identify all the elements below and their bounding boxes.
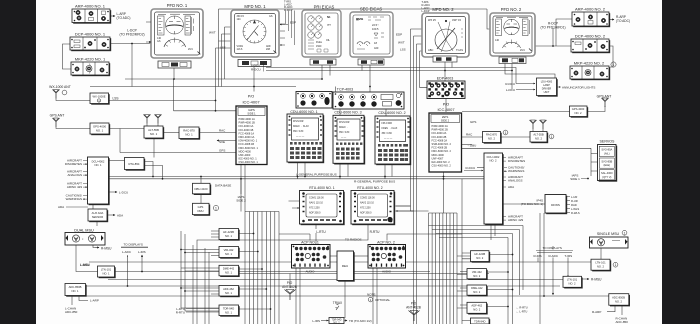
wire: DFWS to DCU2 link bbox=[503, 203, 546, 205]
wire: MFD2 tray down bbox=[445, 62, 452, 81]
svg-text:NO. 2: NO. 2 bbox=[597, 265, 605, 269]
svg-text:PFD NO. 2: PFD NO. 2 bbox=[501, 7, 522, 12]
PFD1 tray bbox=[158, 61, 191, 68]
svg-text:420: 420 bbox=[374, 46, 379, 50]
antenna WX-1000 ANT bbox=[49, 85, 90, 100]
svg-text:— — —: — — — bbox=[296, 137, 305, 139]
svg-text:AUX ADA: AUX ADA bbox=[92, 211, 104, 215]
label L-DCU output bbox=[119, 191, 128, 195]
svg-text:DCP-4000 NO. 2: DCP-4000 NO. 2 bbox=[575, 34, 606, 39]
wire: vertical x487 to PFD2 area bbox=[487, 9, 490, 29]
svg-text:P/O: P/O bbox=[443, 103, 450, 107]
svg-text:GS: GS bbox=[157, 40, 161, 43]
svg-text:ATC 1200: ATC 1200 bbox=[360, 207, 371, 210]
wire: ANT-462B right stem bbox=[413, 300, 415, 308]
label DCU2 right AIRCRAFT ANALOGS bbox=[503, 175, 523, 183]
display MFD NO. 1 bbox=[231, 4, 295, 67]
svg-text:R-GENERAL PURPOSE BUS: R-GENERAL PURPOSE BUS bbox=[354, 180, 395, 184]
svg-text:ADF 208.0: ADF 208.0 bbox=[309, 212, 321, 215]
svg-text:IAPS: IAPS bbox=[442, 115, 449, 119]
svg-text:R-IRS: R-IRS bbox=[534, 254, 542, 258]
unit DBU-4100 bbox=[193, 183, 212, 195]
svg-text:PWR-4000 2A: PWR-4000 2A bbox=[432, 124, 449, 128]
label L-DCU/R-DCU bracket bbox=[251, 64, 264, 72]
label DFWS outputs bbox=[571, 195, 580, 215]
wire: RTA-85A outputs to buses bbox=[144, 162, 163, 179]
svg-text:UNIT: UNIT bbox=[544, 91, 550, 94]
label EDP into MFD2 bbox=[396, 33, 402, 37]
svg-text:L-WLS: L-WLS bbox=[571, 207, 579, 211]
svg-text:DFWS: DFWS bbox=[551, 203, 560, 207]
symbol TRIAX bbox=[333, 301, 343, 310]
wire: right fan elbows staircase bbox=[429, 226, 524, 238]
label R-CHAN ADC-850 bbox=[616, 316, 629, 324]
svg-text:LTN-101: LTN-101 bbox=[101, 268, 112, 272]
wire: R-ARP stub bbox=[607, 311, 615, 313]
svg-text:1520: 1520 bbox=[316, 45, 322, 48]
svg-text:TCP-4003: TCP-4003 bbox=[337, 88, 353, 92]
svg-text:IAPS: IAPS bbox=[248, 108, 255, 112]
wire: ADC2 bottom stubs bbox=[615, 305, 622, 315]
panel TCP-4003 (left section) bbox=[296, 92, 332, 109]
svg-text:R-MSU: R-MSU bbox=[101, 246, 112, 250]
wire: PFD2 to DCP2 bbox=[535, 45, 571, 47]
svg-text:WXT: WXT bbox=[398, 41, 405, 45]
wire: LTN1 up to displays bracket bbox=[128, 256, 143, 286]
label L-GENERAL PURPOSE BUS bbox=[296, 172, 337, 176]
svg-text:FCC-4008 1B: FCC-4008 1B bbox=[239, 142, 255, 146]
wire: DCU1 down to AUX ADA bbox=[93, 204, 97, 226]
svg-text:R-RTU: R-RTU bbox=[176, 310, 185, 314]
svg-text:SIDE 1: SIDE 1 bbox=[570, 177, 580, 181]
svg-text:TO DISPLAYS: TO DISPLAYS bbox=[543, 246, 562, 250]
radio column right: unit ADF-462 NO. 2 bbox=[467, 302, 488, 314]
antenna GPS ANT left bbox=[50, 114, 90, 129]
svg-text:RAC: RAC bbox=[466, 133, 473, 137]
svg-text:SVE: SVE bbox=[219, 140, 225, 144]
label block T-IRS/R-ADC list (top left of MFD2) bbox=[422, 0, 431, 13]
svg-text:NO. 1: NO. 1 bbox=[102, 272, 110, 276]
svg-text:← L-RTU: ← L-RTU bbox=[516, 310, 527, 314]
svg-text:TO RADIOS: TO RADIOS bbox=[345, 237, 361, 241]
svg-text:ADC-850B: ADC-850B bbox=[69, 285, 82, 289]
wire: bracket arrows up bbox=[128, 255, 143, 257]
wire: long horizontal y86.5 bbox=[90, 86, 296, 88]
svg-text:COM2 118.00: COM2 118.00 bbox=[360, 197, 375, 200]
svg-text:SINGLE MSU: SINGLE MSU bbox=[597, 232, 620, 236]
wire: L-DCU/R-DCU pair to right bbox=[266, 68, 516, 84]
svg-text:ARP-4000 NO. 2: ARP-4000 NO. 2 bbox=[575, 7, 606, 12]
svg-text:SIDE 2: SIDE 2 bbox=[236, 199, 246, 203]
wire: DCP1/MKP1 left loop bbox=[63, 44, 72, 69]
label TO DISPLAYS (left) bbox=[121, 243, 148, 248]
wire: PFD1 tray line to IAPS1 bbox=[174, 79, 237, 111]
svg-text:→DBU: →DBU bbox=[467, 144, 476, 148]
wire: GPS2 antenna drop bbox=[587, 106, 605, 112]
label SVE near IAPS1 bbox=[219, 140, 225, 144]
svg-text:ADA: ADA bbox=[508, 185, 514, 189]
wire: SVE output from IAPS1 bbox=[217, 140, 236, 142]
svg-text:HF-423B: HF-423B bbox=[223, 230, 234, 234]
svg-text:RTU-4000 NO. 2: RTU-4000 NO. 2 bbox=[357, 186, 382, 190]
unit RAC-870 NO. 2 bbox=[483, 130, 508, 144]
svg-text:DME-442: DME-442 bbox=[223, 267, 235, 271]
svg-text:SEC EICAS: SEC EICAS bbox=[360, 7, 383, 12]
svg-text:DBU-4100: DBU-4100 bbox=[194, 187, 208, 191]
wire: TCP panel drops to CDUs bbox=[340, 109, 386, 116]
svg-text:WARNINGS: WARNINGS bbox=[66, 197, 82, 201]
wire: right bottom verticals bbox=[508, 213, 544, 324]
svg-text:208: 208 bbox=[266, 48, 271, 51]
label ADA (DCU1 down) bbox=[58, 205, 88, 209]
svg-text:124: 124 bbox=[237, 18, 242, 21]
svg-text:OPTIONAL: OPTIONAL bbox=[375, 298, 391, 302]
unit CDU-6000 NO. 3 bbox=[333, 111, 365, 165]
svg-text:ADF-462: ADF-462 bbox=[223, 287, 234, 291]
svg-text:ANT-462B: ANT-462B bbox=[282, 285, 297, 289]
svg-text:ACP NO. 2: ACP NO. 2 bbox=[377, 241, 395, 245]
svg-text:PRI EICAS: PRI EICAS bbox=[314, 5, 335, 10]
label IAPS SIDE 1 tap right bbox=[570, 174, 589, 182]
svg-text:DATA BASE: DATA BASE bbox=[215, 184, 231, 188]
wire: DME1 inputs bbox=[181, 268, 219, 271]
wire: ARP2 left loop bbox=[556, 19, 572, 46]
svg-text:1: 1 bbox=[624, 231, 626, 235]
wire: ACP1 to REU bbox=[330, 255, 337, 257]
svg-text:NO. 2: NO. 2 bbox=[473, 274, 481, 278]
svg-text:GPS: GPS bbox=[470, 120, 476, 124]
label DCU1 input AIRCRAFT ARINC 429 bbox=[67, 182, 87, 190]
svg-text:RAC: RAC bbox=[219, 129, 226, 133]
svg-text:ACP NO. 1: ACP NO. 1 bbox=[301, 241, 319, 245]
wire: ALT1 to RAC1 bbox=[164, 132, 179, 134]
svg-text:MKP-4220 NO. 2: MKP-4220 NO. 2 bbox=[574, 61, 605, 66]
radio column left: unit TDR-94D NO. 1 bbox=[219, 305, 240, 317]
SEC EICAS tray bbox=[358, 59, 384, 65]
label R-GENERAL PURPOSE BUS bbox=[354, 180, 395, 184]
wire: DCU1 to RTA-85A bbox=[109, 160, 125, 162]
unit GPS-4000 NO. 2 bbox=[570, 106, 589, 118]
wire: L-DCU/R-DCU pair lower bbox=[266, 71, 512, 90]
svg-text:TR (TO AFD 1/2): TR (TO AFD 1/2) bbox=[349, 319, 372, 323]
svg-text:NO. 2: NO. 2 bbox=[535, 137, 543, 141]
label R-ARP near ADC2 bbox=[592, 310, 601, 314]
wire: HF1 inputs bbox=[211, 231, 219, 237]
display PFD NO. 1 bbox=[146, 3, 203, 68]
svg-text:R-RTU: R-RTU bbox=[370, 230, 381, 234]
panel EDP-4003 bbox=[427, 77, 465, 99]
label DCU1 input AIRCRAFT ANALOGS bbox=[67, 170, 87, 178]
label RAC near IAPS1 bbox=[219, 129, 226, 133]
wire: DCP2-MKP2 right loop bbox=[609, 46, 613, 67]
svg-text:330° 15: 330° 15 bbox=[452, 18, 462, 22]
display MFD NO. 2 bbox=[422, 7, 469, 62]
unit ADC-850B NO. 1 bbox=[65, 284, 87, 297]
unit XPDR small box bottom center bbox=[312, 318, 371, 324]
panel ARP-4000 NO. 2 bbox=[572, 7, 630, 28]
MFD1 tray bbox=[238, 60, 271, 67]
label IAPS SIDE 2 tap bbox=[236, 195, 246, 203]
svg-text:NO. 2: NO. 2 bbox=[473, 290, 481, 294]
wire: IAPS2 right GPS line bbox=[462, 111, 570, 113]
svg-text:PWR-4000 1B: PWR-4000 1B bbox=[239, 121, 256, 125]
svg-text:350 / 0.80: 350 / 0.80 bbox=[293, 131, 304, 133]
svg-text:ADC-850: ADC-850 bbox=[616, 320, 629, 324]
wire: R-DCP junction vertical bbox=[552, 28, 554, 46]
label GPS near IAPS1 bbox=[219, 148, 225, 152]
label R-DCU into DCU2 bbox=[464, 166, 483, 171]
wire: IAPS2 right DBU line bbox=[462, 144, 472, 146]
wire: L general purpose bus bbox=[109, 176, 485, 178]
wire: REU to ACP2 bbox=[354, 255, 369, 257]
svg-text:NO. 2: NO. 2 bbox=[568, 282, 576, 286]
svg-text:R-ADC: R-ADC bbox=[549, 254, 559, 258]
svg-text:NO. 2: NO. 2 bbox=[488, 137, 496, 141]
label DCU2 right ADA bbox=[503, 185, 514, 189]
radio column right: unit VIR-432 NO. 2 bbox=[467, 269, 488, 280]
svg-text:IEC-4000 NO. 1: IEC-4000 NO. 1 bbox=[239, 157, 258, 161]
unit SINGLE MSU bbox=[590, 230, 629, 248]
label GPS near IAPS2 bbox=[470, 120, 476, 124]
radio column left: unit VIR-432 NO. 1 bbox=[219, 247, 240, 259]
svg-text:← R-RTU: ← R-RTU bbox=[516, 306, 528, 310]
label NOTE OPTIONAL bbox=[367, 292, 391, 302]
panel DCP-4000 NO. 1 bbox=[70, 29, 145, 52]
svg-text:FCC-4008 1A: FCC-4008 1A bbox=[239, 131, 255, 135]
svg-text:1: 1 bbox=[615, 263, 617, 267]
label IP4S TO DCU NO 1 bbox=[521, 199, 543, 207]
svg-text:22.5 º: 22.5 º bbox=[372, 23, 379, 27]
wire: AUX ADA output bbox=[107, 214, 115, 216]
svg-text:DUAL MSU: DUAL MSU bbox=[74, 229, 94, 233]
svg-text:1: 1 bbox=[215, 207, 217, 211]
svg-text:L-IRS: L-IRS bbox=[312, 319, 320, 323]
wire: RAC1 to IAPS1 bbox=[200, 132, 238, 134]
svg-text:ICC-4007: ICC-4007 bbox=[242, 100, 260, 105]
svg-text:NO. 1: NO. 1 bbox=[225, 252, 233, 256]
unit SVO-85A (AIL) bbox=[599, 146, 614, 156]
svg-text:WXT: WXT bbox=[209, 31, 216, 35]
svg-text:NO. 1: NO. 1 bbox=[71, 289, 79, 293]
unit DCU-4002 NO. 1 bbox=[88, 157, 110, 205]
svg-text:LSS: LSS bbox=[113, 96, 119, 100]
svg-text:ALT-55B: ALT-55B bbox=[533, 133, 543, 137]
svg-text:L-ADC: L-ADC bbox=[122, 250, 132, 254]
wire: long horizontal y286 bbox=[86, 285, 561, 287]
label L-ARP near ADC1 bbox=[90, 298, 99, 302]
wire: TDR1 inputs bbox=[181, 308, 219, 311]
svg-text:IOC-4000 1A: IOC-4000 1A bbox=[239, 124, 254, 128]
wire: LTN2-2 R-MSU stub bbox=[583, 278, 590, 280]
svg-text:(QTY 2): (QTY 2) bbox=[602, 175, 611, 179]
svg-text:ANALOGS: ANALOGS bbox=[67, 173, 82, 177]
wire: CDU2 drop to bus bbox=[385, 165, 392, 179]
svg-text:GPS ANT: GPS ANT bbox=[50, 114, 65, 118]
svg-text:FPLN DIR: FPLN DIR bbox=[293, 121, 304, 123]
svg-text:WX-1000 ANT: WX-1000 ANT bbox=[49, 85, 71, 89]
svg-text:(TO DCU NO. 1): (TO DCU NO. 1) bbox=[521, 202, 543, 206]
unit AUX ADA SENSOR bbox=[88, 209, 108, 222]
svg-text:IEC-4000 NO. 2: IEC-4000 NO. 2 bbox=[432, 160, 451, 164]
svg-text:NO. 1: NO. 1 bbox=[94, 163, 102, 167]
svg-text:FPLN DIR: FPLN DIR bbox=[382, 123, 393, 125]
unit RTA-85A bbox=[125, 158, 146, 171]
svg-text:FMC-6000 NO. 1: FMC-6000 NO. 1 bbox=[239, 146, 259, 150]
svg-text:T-IRS: T-IRS bbox=[565, 254, 573, 258]
svg-text:ICC-4007: ICC-4007 bbox=[437, 107, 455, 112]
radio column right: unit TDR-94D NO. 2 (cut at bottom) bbox=[471, 318, 491, 324]
wire: PRI EICAS tray down bbox=[322, 65, 336, 92]
svg-text:R-MSU: R-MSU bbox=[591, 278, 602, 282]
svg-text:PWR-4000 1A: PWR-4000 1A bbox=[239, 117, 256, 121]
svg-text:ADF 208.0: ADF 208.0 bbox=[360, 212, 372, 215]
wire: left comb header bbox=[245, 211, 279, 213]
unit LDU-4000 lamp driver bbox=[505, 78, 595, 97]
svg-text:350 / 0.80: 350 / 0.80 bbox=[382, 133, 393, 135]
label TO DISPLAYS (right) bbox=[536, 246, 573, 251]
panel ARP-4000 NO. 1 bbox=[72, 4, 130, 24]
wire: DCU2 bottom drop bbox=[491, 225, 495, 240]
unit WX-1000E bbox=[90, 93, 119, 105]
svg-text:PFD NO. 1: PFD NO. 1 bbox=[167, 3, 188, 8]
svg-text:KDEN →: KDEN → bbox=[339, 127, 348, 129]
panel ACP NO. 2 bbox=[368, 241, 406, 274]
label WXT into MFD1 bbox=[209, 31, 216, 35]
svg-text:NO. 2: NO. 2 bbox=[476, 256, 484, 260]
wire: RAC2 to ALT2 bbox=[500, 136, 530, 138]
svg-text:GS: GS bbox=[269, 15, 273, 18]
svg-text:CSU-4000 NO. 2: CSU-4000 NO. 2 bbox=[432, 164, 452, 168]
unit IAPS side 2 (P/O ICC-4007) bbox=[429, 103, 462, 173]
svg-text:ARINC 429: ARINC 429 bbox=[508, 218, 524, 222]
svg-text:ADF-462: ADF-462 bbox=[471, 304, 482, 308]
wire: audio bus left bbox=[233, 273, 337, 275]
label R-IRS under right bracket bbox=[534, 254, 542, 258]
svg-text:L-DCU: L-DCU bbox=[119, 191, 128, 195]
svg-text:ADC-850B: ADC-850B bbox=[612, 295, 625, 299]
label R-ADC under right bracket bbox=[549, 254, 559, 258]
svg-text:NO. 1: NO. 1 bbox=[150, 132, 158, 136]
radio column left: unit ADF-462 NO. 1 bbox=[219, 286, 240, 298]
svg-text:R-ARP: R-ARP bbox=[592, 310, 601, 314]
svg-text:L-IRS: L-IRS bbox=[138, 250, 146, 254]
svg-text:R-DCU: R-DCU bbox=[505, 82, 515, 86]
svg-text:ATC 1200: ATC 1200 bbox=[309, 207, 320, 210]
svg-text:NO. 1: NO. 1 bbox=[185, 133, 193, 137]
wire: SEC EICAS tray down bbox=[362, 65, 370, 93]
svg-text:LSS: LSS bbox=[220, 46, 226, 50]
svg-text:NO. 2: NO. 2 bbox=[574, 111, 582, 115]
wire: DFWS outputs bbox=[566, 197, 570, 213]
unit REU bbox=[337, 251, 355, 282]
label LSS into MFD2 bbox=[400, 48, 406, 52]
wire: RTU2 drop bbox=[197, 223, 368, 324]
wire: VIR1 inputs bbox=[181, 250, 219, 256]
svg-text:NO. 1: NO. 1 bbox=[225, 291, 233, 295]
svg-text:(TO ADC): (TO ADC) bbox=[616, 19, 630, 23]
wire: right comb header bbox=[429, 212, 458, 214]
wire: ACP1 top feed bbox=[279, 234, 310, 241]
svg-text:SERVOS: SERVOS bbox=[600, 140, 616, 144]
label DCU1 input AIRCRAFT DISCRETES bbox=[65, 159, 87, 167]
unit DUAL MSU bbox=[65, 229, 112, 268]
label L-IRS under bracket bbox=[138, 250, 146, 254]
svg-text:1: 1 bbox=[505, 131, 507, 135]
unit GPS DMU bbox=[193, 203, 219, 216]
svg-text:NAV1 110.10: NAV1 110.10 bbox=[309, 202, 324, 205]
svg-text:N1: N1 bbox=[327, 15, 331, 19]
svg-text:SENSOR: SENSOR bbox=[92, 215, 103, 219]
svg-text:DCU-4002: DCU-4002 bbox=[92, 160, 105, 164]
svg-text:OIL: OIL bbox=[326, 39, 331, 42]
wire: audio bus right bbox=[354, 273, 490, 275]
svg-text:ADC-850: ADC-850 bbox=[65, 310, 78, 314]
left black border bar bbox=[0, 0, 36, 324]
svg-text:VIR-432: VIR-432 bbox=[224, 248, 234, 252]
svg-text:SIDE 2: SIDE 2 bbox=[441, 119, 450, 123]
wire: IAPS SIDE2 tap bbox=[240, 179, 242, 194]
svg-text:P/O: P/O bbox=[248, 95, 255, 99]
svg-text:NO. 2: NO. 2 bbox=[615, 299, 623, 303]
label T-IRS under right bracket bbox=[565, 254, 573, 258]
svg-text:R-UR: R-UR bbox=[571, 199, 578, 203]
svg-text:R-DCU: R-DCU bbox=[251, 68, 261, 72]
svg-text:TO DISPLAYS: TO DISPLAYS bbox=[124, 243, 143, 247]
svg-text:29.9: 29.9 bbox=[520, 49, 525, 52]
unit LTN-101 NO. 2 bbox=[591, 259, 618, 271]
unit ALT-55B NO. 1 bbox=[144, 126, 164, 139]
label DCU1 output CAUTIONS/WARNINGS bbox=[66, 194, 87, 202]
svg-text:EDP: EDP bbox=[290, 21, 296, 25]
svg-text:HF-423B: HF-423B bbox=[474, 252, 485, 256]
svg-text:PWR-4000 2B: PWR-4000 2B bbox=[432, 128, 449, 132]
svg-text:FCC-4008 2A: FCC-4008 2A bbox=[432, 138, 448, 142]
svg-text:IOC-4000 2A: IOC-4000 2A bbox=[432, 131, 447, 135]
svg-text:DMU: DMU bbox=[197, 209, 203, 213]
unit ALT-55B NO. 2 bbox=[530, 132, 554, 144]
wire: center-right vertical cluster bbox=[411, 29, 429, 324]
wire: MFD2 left input stubs bbox=[411, 29, 423, 51]
panel TCP-4003 bbox=[333, 88, 404, 110]
unit servo stack outer bbox=[598, 145, 618, 182]
wire: long horizontal y262 bbox=[89, 261, 591, 263]
svg-text:29.9: 29.9 bbox=[188, 48, 193, 51]
wire: left vertical feeders for radios bbox=[181, 231, 185, 311]
unit SAL-4000 (QTY 2) bbox=[599, 170, 614, 180]
svg-text:(ELE): (ELE) bbox=[603, 163, 610, 167]
label DCU2 right AIRCRAFT DISCRETES bbox=[503, 156, 525, 164]
antenna P/O ANT-462B left bbox=[282, 281, 297, 300]
wire: right bus drop vertical bbox=[461, 179, 463, 324]
wire: DBU-4100 drop bbox=[200, 177, 202, 204]
svg-text:EDP: EDP bbox=[396, 33, 402, 37]
svg-text:LSS: LSS bbox=[400, 48, 406, 52]
antenna P/O ANT-462B right bbox=[406, 302, 421, 322]
svg-text:DCU-4002: DCU-4002 bbox=[487, 155, 500, 159]
wire: L-RTU R-RTU stubs bottom left bbox=[186, 309, 219, 313]
svg-text:LTN-101: LTN-101 bbox=[567, 278, 578, 282]
svg-text:▤VIB: ▤VIB bbox=[356, 17, 363, 21]
svg-text:MKP-4220 NO. 1: MKP-4220 NO. 1 bbox=[75, 57, 106, 62]
wire: ACP2 top feed bbox=[387, 234, 462, 241]
wire: IAPS2 bottom drop bbox=[443, 172, 445, 213]
wire: left fan verticals bbox=[245, 212, 279, 324]
svg-text:TDR-94D: TDR-94D bbox=[474, 319, 485, 323]
svg-text:ADA: ADA bbox=[58, 205, 64, 209]
svg-text:ARP-4000 NO. 1: ARP-4000 NO. 1 bbox=[75, 4, 106, 9]
wire: to displays bracket right bbox=[537, 246, 572, 294]
svg-text:NO. 2: NO. 2 bbox=[489, 159, 497, 163]
